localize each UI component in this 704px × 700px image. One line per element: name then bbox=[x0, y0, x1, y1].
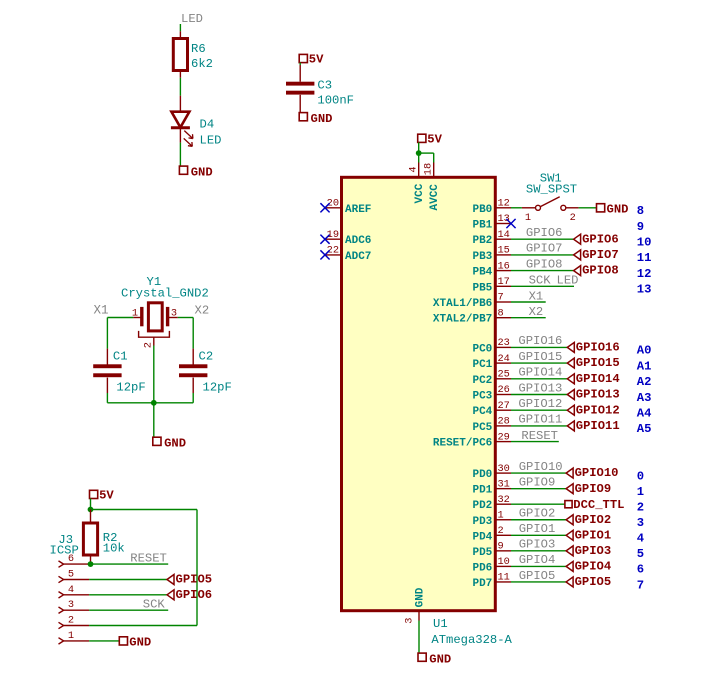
svg-text:GPIO14: GPIO14 bbox=[518, 366, 562, 380]
svg-text:PD2: PD2 bbox=[472, 500, 492, 512]
svg-text:SW_SPST: SW_SPST bbox=[526, 183, 577, 197]
op-amp U1 body bbox=[342, 177, 496, 610]
wire bbox=[511, 472, 566, 474]
svg-text:13: 13 bbox=[498, 213, 510, 225]
global label GPIO6 bbox=[167, 590, 174, 600]
wire bbox=[153, 346, 155, 403]
pin 26 PC3 bbox=[495, 394, 511, 396]
svg-text:GPIO4: GPIO4 bbox=[519, 553, 556, 567]
wire bbox=[511, 317, 546, 319]
wire bbox=[107, 317, 133, 319]
svg-text:ADC6: ADC6 bbox=[345, 235, 371, 247]
svg-text:A2: A2 bbox=[637, 375, 652, 389]
resistor R2 bbox=[83, 523, 97, 555]
svg-text:PB1: PB1 bbox=[472, 220, 492, 232]
crystal Y1 pin3 bbox=[168, 317, 178, 319]
svg-text:GPIO14: GPIO14 bbox=[576, 372, 620, 386]
pin 19 ADC6 bbox=[325, 238, 342, 240]
svg-text:28: 28 bbox=[498, 416, 510, 428]
svg-text:31: 31 bbox=[498, 478, 510, 490]
wire bbox=[179, 143, 181, 167]
svg-text:GPIO2: GPIO2 bbox=[519, 507, 556, 521]
power GND bbox=[153, 437, 161, 445]
svg-text:XTAL1/PB6: XTAL1/PB6 bbox=[433, 298, 492, 310]
svg-text:GND: GND bbox=[607, 203, 629, 217]
svg-text:15: 15 bbox=[498, 245, 510, 257]
svg-text:2: 2 bbox=[68, 615, 74, 627]
pin 16 PB4 bbox=[495, 270, 511, 272]
diode D4 bbox=[179, 96, 181, 112]
svg-text:3: 3 bbox=[404, 618, 416, 624]
junction bbox=[151, 400, 157, 406]
svg-text:9: 9 bbox=[637, 220, 644, 234]
svg-text:GPIO16: GPIO16 bbox=[518, 334, 562, 348]
svg-text:X1: X1 bbox=[93, 304, 108, 318]
svg-text:PB2: PB2 bbox=[472, 235, 492, 247]
svg-text:5V: 5V bbox=[427, 132, 442, 146]
svg-text:PD0: PD0 bbox=[472, 469, 492, 481]
svg-text:12pF: 12pF bbox=[203, 381, 232, 395]
svg-text:18: 18 bbox=[422, 163, 434, 175]
svg-text:GPIO3: GPIO3 bbox=[519, 538, 556, 552]
wire bbox=[418, 142, 420, 162]
svg-text:PB5: PB5 bbox=[472, 282, 492, 294]
wire bbox=[179, 24, 181, 31]
wire bbox=[433, 153, 435, 162]
svg-text:PC0: PC0 bbox=[472, 343, 492, 355]
global label DCC_TTL bbox=[565, 501, 572, 508]
svg-text:13: 13 bbox=[637, 283, 652, 297]
global label GPIO16 bbox=[567, 342, 574, 352]
crystal Y1 pin2 bbox=[139, 331, 170, 337]
svg-text:6: 6 bbox=[68, 553, 74, 565]
svg-text:4: 4 bbox=[68, 584, 74, 596]
svg-text:PC4: PC4 bbox=[472, 406, 492, 418]
svg-text:GPIO1: GPIO1 bbox=[519, 522, 556, 536]
svg-text:X2: X2 bbox=[529, 305, 544, 319]
svg-text:10k: 10k bbox=[103, 542, 125, 556]
svg-text:GPIO6: GPIO6 bbox=[176, 588, 213, 602]
pin 14 PB2 bbox=[495, 238, 511, 240]
capacitor C2 pins bbox=[192, 349, 194, 365]
capacitor C1 bbox=[93, 364, 121, 368]
global label GPIO3 bbox=[566, 546, 573, 556]
svg-text:7: 7 bbox=[637, 578, 644, 592]
no-connect bbox=[506, 219, 515, 228]
wire bbox=[511, 425, 567, 427]
svg-text:Crystal_GND2: Crystal_GND2 bbox=[121, 286, 209, 300]
wire bbox=[196, 510, 198, 626]
svg-text:A3: A3 bbox=[637, 391, 652, 405]
svg-text:PC1: PC1 bbox=[472, 359, 492, 371]
global label GPIO5 bbox=[566, 577, 573, 587]
pin 11 PD7 bbox=[495, 581, 511, 583]
svg-text:GPIO7: GPIO7 bbox=[582, 248, 619, 262]
pin 1 PD3 bbox=[495, 519, 511, 521]
svg-text:GPIO8: GPIO8 bbox=[526, 257, 563, 271]
pin 28 PC5 bbox=[495, 425, 511, 427]
wire bbox=[89, 579, 167, 581]
junction bbox=[88, 561, 94, 567]
pin 22 ADC7 bbox=[325, 254, 342, 256]
svg-text:A4: A4 bbox=[637, 407, 652, 421]
svg-text:C3: C3 bbox=[317, 78, 332, 92]
crystal Y1 bbox=[148, 303, 162, 331]
pin 10 PD6 bbox=[495, 565, 511, 567]
wire bbox=[511, 519, 566, 521]
wire bbox=[511, 301, 546, 303]
pin 8 XTAL2/PB7 bbox=[495, 317, 511, 319]
svg-text:14: 14 bbox=[498, 229, 510, 241]
wire bbox=[511, 346, 567, 348]
svg-text:GPIO11: GPIO11 bbox=[518, 413, 562, 427]
global label GPIO11 bbox=[567, 421, 574, 431]
power 5V bbox=[90, 490, 98, 498]
wire bbox=[511, 409, 567, 411]
svg-text:C2: C2 bbox=[199, 350, 214, 364]
svg-text:PB0: PB0 bbox=[472, 204, 492, 216]
svg-text:GND: GND bbox=[414, 587, 426, 607]
svg-text:GPIO3: GPIO3 bbox=[575, 544, 612, 558]
pin 32 PD2 bbox=[495, 503, 511, 505]
svg-text:GPIO15: GPIO15 bbox=[576, 356, 620, 370]
svg-text:9: 9 bbox=[498, 541, 504, 553]
global label GPIO7 bbox=[574, 250, 581, 260]
svg-text:PB3: PB3 bbox=[472, 251, 492, 263]
svg-text:GND: GND bbox=[429, 652, 451, 666]
svg-text:SCK: SCK bbox=[143, 598, 166, 612]
svg-text:30: 30 bbox=[498, 463, 510, 475]
power 5V bbox=[418, 134, 426, 142]
pin 27 PC4 bbox=[495, 409, 511, 411]
svg-text:PD1: PD1 bbox=[472, 485, 492, 497]
connector J3 pin 1 bbox=[59, 638, 64, 644]
svg-text:GPIO5: GPIO5 bbox=[575, 575, 612, 589]
pin 23 PC0 bbox=[495, 346, 511, 348]
wire bbox=[106, 393, 108, 403]
svg-text:PC5: PC5 bbox=[472, 422, 492, 434]
svg-text:1: 1 bbox=[498, 509, 504, 521]
wire bbox=[419, 152, 434, 154]
wire bbox=[418, 621, 420, 654]
svg-text:2: 2 bbox=[498, 525, 504, 537]
svg-text:GPIO4: GPIO4 bbox=[575, 560, 612, 574]
pin 29 RESET/PC6 bbox=[495, 441, 511, 443]
global label GPIO2 bbox=[566, 515, 573, 525]
svg-text:X2: X2 bbox=[195, 304, 210, 318]
svg-text:GPIO5: GPIO5 bbox=[519, 569, 556, 583]
svg-text:PD5: PD5 bbox=[472, 547, 492, 559]
wire bbox=[107, 402, 193, 404]
svg-text:GND: GND bbox=[164, 436, 186, 450]
svg-text:X1: X1 bbox=[529, 289, 544, 303]
svg-text:5: 5 bbox=[68, 569, 74, 581]
svg-text:4: 4 bbox=[407, 166, 419, 172]
wire bbox=[579, 207, 597, 209]
capacitor C1 pins bbox=[106, 349, 108, 365]
svg-text:GPIO1: GPIO1 bbox=[575, 528, 612, 542]
svg-text:16: 16 bbox=[498, 260, 510, 272]
svg-text:VCC: VCC bbox=[414, 183, 426, 203]
pin 7 XTAL1/PB6 bbox=[495, 301, 511, 303]
svg-text:24: 24 bbox=[498, 353, 510, 365]
svg-text:PD6: PD6 bbox=[472, 562, 492, 574]
svg-text:2: 2 bbox=[143, 342, 155, 348]
pin 18 AVCC bbox=[433, 163, 435, 178]
svg-text:ICSP: ICSP bbox=[50, 543, 79, 557]
global label GPIO10 bbox=[566, 468, 573, 478]
wire bbox=[511, 503, 565, 505]
pin 20 AREF bbox=[325, 207, 342, 209]
svg-text:10: 10 bbox=[498, 556, 510, 568]
svg-text:1: 1 bbox=[132, 307, 138, 319]
global label GPIO4 bbox=[566, 561, 573, 571]
svg-text:GPIO5: GPIO5 bbox=[176, 573, 213, 587]
svg-text:PD3: PD3 bbox=[472, 516, 492, 528]
svg-text:12: 12 bbox=[637, 267, 652, 281]
pin 17 PB5 bbox=[495, 285, 511, 287]
power 5V bbox=[299, 54, 307, 62]
svg-text:PC3: PC3 bbox=[472, 391, 492, 403]
wire bbox=[511, 207, 522, 209]
wire bbox=[511, 534, 566, 536]
svg-text:GPIO2: GPIO2 bbox=[575, 513, 612, 527]
crystal Y1 pin1 bbox=[133, 317, 141, 319]
wire bbox=[511, 441, 559, 443]
svg-text:1: 1 bbox=[525, 212, 531, 224]
svg-text:27: 27 bbox=[498, 400, 510, 412]
resistor R6 bbox=[173, 39, 187, 71]
wire bbox=[91, 509, 198, 511]
svg-text:A5: A5 bbox=[637, 422, 652, 436]
svg-text:100nF: 100nF bbox=[317, 93, 354, 107]
svg-text:ADC7: ADC7 bbox=[345, 251, 371, 263]
pin 12 PB0 bbox=[495, 207, 511, 209]
wire bbox=[90, 499, 92, 510]
svg-text:GPIO12: GPIO12 bbox=[518, 397, 562, 411]
svg-text:6: 6 bbox=[637, 563, 644, 577]
svg-text:10: 10 bbox=[637, 236, 652, 250]
wire bbox=[511, 270, 574, 272]
wire bbox=[89, 625, 197, 627]
svg-text:PD7: PD7 bbox=[472, 578, 492, 590]
svg-text:PC2: PC2 bbox=[472, 375, 492, 387]
svg-text:RESET: RESET bbox=[130, 551, 167, 565]
svg-text:3: 3 bbox=[171, 307, 177, 319]
svg-text:0: 0 bbox=[637, 469, 644, 483]
pin 15 PB3 bbox=[495, 254, 511, 256]
svg-text:GPIO6: GPIO6 bbox=[582, 232, 619, 246]
svg-text:3: 3 bbox=[68, 599, 74, 611]
wire bbox=[511, 550, 566, 552]
power GND bbox=[119, 637, 127, 645]
global label GPIO6 bbox=[574, 234, 581, 244]
svg-text:C1: C1 bbox=[113, 350, 128, 364]
wire bbox=[89, 563, 168, 565]
svg-text:GPIO12: GPIO12 bbox=[576, 403, 620, 417]
svg-text:1: 1 bbox=[68, 630, 74, 642]
svg-text:GPIO9: GPIO9 bbox=[519, 475, 556, 489]
global label GPIO8 bbox=[574, 266, 581, 276]
wire bbox=[89, 609, 168, 611]
pin 9 PD5 bbox=[495, 550, 511, 552]
junction bbox=[88, 507, 94, 513]
wire bbox=[511, 488, 566, 490]
svg-text:GND: GND bbox=[311, 112, 333, 126]
global label GPIO1 bbox=[566, 530, 573, 540]
pin 30 PD0 bbox=[495, 472, 511, 474]
svg-text:LED: LED bbox=[200, 134, 222, 148]
pin 24 PC1 bbox=[495, 362, 511, 364]
pin 25 PC2 bbox=[495, 378, 511, 380]
pin 31 PD1 bbox=[495, 488, 511, 490]
wire bbox=[192, 393, 194, 403]
svg-text:RESET/PC6: RESET/PC6 bbox=[433, 438, 492, 450]
svg-text:2: 2 bbox=[637, 501, 644, 515]
svg-text:AREF: AREF bbox=[345, 204, 371, 216]
junction bbox=[416, 150, 422, 156]
svg-text:GPIO15: GPIO15 bbox=[518, 350, 562, 364]
svg-text:SCK: SCK bbox=[529, 274, 552, 288]
power GND bbox=[418, 653, 426, 661]
svg-text:GPIO16: GPIO16 bbox=[576, 341, 620, 355]
pin 2 PD4 bbox=[495, 534, 511, 536]
svg-text:5: 5 bbox=[637, 547, 644, 561]
svg-text:GND: GND bbox=[191, 165, 213, 179]
resistor R2 pins bbox=[90, 510, 92, 524]
svg-text:D4: D4 bbox=[200, 118, 215, 132]
svg-text:26: 26 bbox=[498, 384, 510, 396]
svg-text:23: 23 bbox=[498, 337, 510, 349]
svg-text:7: 7 bbox=[498, 292, 504, 304]
svg-text:PB4: PB4 bbox=[472, 267, 492, 279]
global label GPIO9 bbox=[566, 484, 573, 494]
switch SW1 bbox=[522, 207, 536, 209]
svg-text:GPIO10: GPIO10 bbox=[575, 466, 619, 480]
svg-text:GPIO7: GPIO7 bbox=[526, 242, 563, 256]
svg-text:LED: LED bbox=[557, 274, 579, 288]
wire bbox=[89, 640, 119, 642]
svg-text:ATmega328-A: ATmega328-A bbox=[431, 633, 512, 647]
svg-text:2: 2 bbox=[570, 212, 576, 224]
wire bbox=[192, 318, 194, 349]
svg-text:PD4: PD4 bbox=[472, 531, 492, 543]
pin 4 VCC bbox=[418, 163, 420, 178]
connector J3 pin 3 bbox=[59, 607, 64, 613]
svg-text:12pF: 12pF bbox=[116, 381, 145, 395]
wire bbox=[511, 378, 567, 380]
resistor R6 pins bbox=[179, 31, 181, 38]
wire bbox=[511, 581, 566, 583]
svg-text:LED: LED bbox=[181, 12, 203, 26]
wire bbox=[511, 394, 567, 396]
svg-text:GPIO13: GPIO13 bbox=[576, 388, 620, 402]
svg-text:DCC_TTL: DCC_TTL bbox=[573, 498, 624, 512]
svg-text:XTAL2/PB7: XTAL2/PB7 bbox=[433, 314, 492, 326]
svg-text:1: 1 bbox=[637, 485, 644, 499]
wire bbox=[89, 594, 167, 596]
svg-text:GPIO10: GPIO10 bbox=[519, 460, 563, 474]
wire bbox=[153, 403, 155, 437]
svg-text:GPIO6: GPIO6 bbox=[526, 226, 563, 240]
svg-text:R6: R6 bbox=[191, 42, 206, 56]
connector J3 pin 4 bbox=[59, 592, 64, 598]
svg-text:4: 4 bbox=[637, 532, 644, 546]
svg-text:GPIO13: GPIO13 bbox=[518, 381, 562, 395]
svg-text:12: 12 bbox=[498, 198, 510, 210]
svg-text:32: 32 bbox=[498, 494, 510, 506]
svg-text:11: 11 bbox=[498, 572, 510, 584]
svg-text:8: 8 bbox=[498, 307, 504, 319]
svg-text:17: 17 bbox=[498, 276, 510, 288]
svg-text:GPIO9: GPIO9 bbox=[575, 482, 612, 496]
capacitor C2 bbox=[179, 364, 207, 368]
svg-text:29: 29 bbox=[498, 431, 510, 443]
global label GPIO15 bbox=[567, 358, 574, 368]
wire bbox=[179, 78, 181, 96]
capacitor C3 bbox=[286, 82, 314, 86]
connector J3 pin 6 bbox=[59, 561, 64, 567]
global label GPIO5 bbox=[167, 575, 174, 585]
svg-text:11: 11 bbox=[637, 251, 652, 265]
svg-text:A0: A0 bbox=[637, 344, 652, 358]
wire bbox=[178, 317, 193, 319]
wire bbox=[299, 63, 301, 65]
svg-text:GPIO11: GPIO11 bbox=[576, 419, 620, 433]
svg-text:5V: 5V bbox=[309, 53, 324, 67]
wire bbox=[511, 362, 567, 364]
power GND bbox=[179, 166, 187, 174]
wire bbox=[511, 238, 574, 240]
power GND bbox=[597, 204, 605, 212]
pin 3 GND bbox=[418, 611, 420, 621]
pin 13 PB1 bbox=[495, 223, 511, 225]
crystal Y1 pin2 stub bbox=[153, 337, 155, 345]
svg-text:6k2: 6k2 bbox=[191, 57, 213, 71]
global label GPIO13 bbox=[567, 390, 574, 400]
connector J3 pin 5 bbox=[59, 576, 64, 582]
svg-text:8: 8 bbox=[637, 204, 644, 218]
svg-text:5V: 5V bbox=[99, 489, 114, 503]
global label GPIO12 bbox=[567, 405, 574, 415]
wire bbox=[511, 565, 566, 567]
svg-text:AVCC: AVCC bbox=[429, 184, 441, 211]
wire bbox=[511, 285, 574, 287]
svg-text:3: 3 bbox=[637, 516, 644, 530]
svg-text:25: 25 bbox=[498, 369, 510, 381]
svg-text:U1: U1 bbox=[433, 617, 448, 631]
wire bbox=[106, 318, 108, 349]
power GND bbox=[299, 113, 307, 121]
svg-text:RESET: RESET bbox=[521, 429, 558, 443]
svg-text:A1: A1 bbox=[637, 359, 652, 373]
global label GPIO14 bbox=[567, 374, 574, 384]
wire bbox=[511, 254, 574, 256]
svg-text:GPIO8: GPIO8 bbox=[582, 264, 619, 278]
connector J3 pin 2 bbox=[59, 622, 64, 628]
svg-text:GND: GND bbox=[129, 636, 151, 650]
capacitor C3 pins bbox=[299, 65, 301, 82]
